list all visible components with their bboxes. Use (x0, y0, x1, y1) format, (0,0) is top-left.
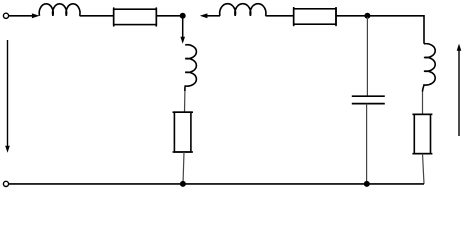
resistor R3 (173, 112, 194, 152)
voltage arrow V1 (left side, pointing down) (5, 40, 10, 153)
inductor L2 (220, 4, 266, 16)
wire L1 to R1 (80, 15, 114, 17)
port terminal P1 (top-left input) (3, 13, 8, 18)
wire R1 to node A (156, 15, 180, 17)
inductor L3 (185, 45, 197, 91)
current arrow i2 (leftward into node A) (200, 13, 220, 18)
resistor R4 (412, 114, 432, 153)
current arrow i1 (rightward into L1) (32, 13, 40, 18)
inductor L4 (423, 44, 436, 92)
capacitor C1 (352, 96, 385, 103)
node A junction dot (180, 13, 186, 19)
node B junction dot (364, 13, 370, 19)
wire capacitor feed from node B (366, 17, 368, 96)
node D junction dot (C1 to rail) (364, 181, 370, 187)
resistor R1 (114, 7, 157, 26)
port terminal P2 (bottom-left) (3, 181, 8, 186)
wire R4 to bottom rail (423, 154, 425, 184)
bottom rail wire (9, 183, 424, 185)
current arrow i3 (down from node A into L3) (180, 16, 185, 44)
wire R3 to bottom rail (183, 152, 184, 184)
inductor L1 (39, 4, 80, 16)
wire L3 to R3 (184, 91, 186, 112)
wire L2 to R2 (266, 15, 294, 17)
voltage arrow V2 (right side, pointing up) (457, 44, 462, 136)
wire R2 to node B (336, 15, 365, 17)
wire input to L1 (9, 15, 33, 17)
wire node B to top-right corner (370, 16, 424, 44)
wire capacitor to bottom rail (366, 104, 368, 184)
node C junction dot (R3 to rail) (180, 181, 186, 187)
wire L4 to R4 (422, 92, 424, 115)
resistor R2 (294, 7, 336, 26)
